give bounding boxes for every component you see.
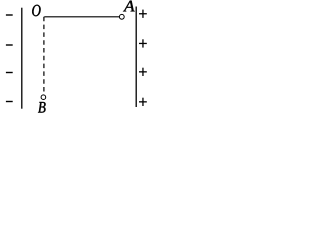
- node B label: [38, 102, 46, 113]
- minus sign 2: [6, 44, 13, 45]
- node B marker (open circle): [41, 95, 46, 100]
- plus sign 2: [139, 39, 147, 47]
- plus sign 4: [139, 98, 147, 106]
- minus sign 3: [6, 72, 13, 73]
- minus sign 1: [6, 14, 13, 15]
- plus sign 1: [139, 10, 147, 18]
- node A marker (open circle): [119, 14, 124, 19]
- node O label: [32, 5, 40, 16]
- minus sign 4: [6, 101, 13, 102]
- positive plate (right vertical line): [135, 7, 137, 108]
- plus sign 3: [139, 68, 147, 76]
- dashed path O to B (vertical dashed line): [43, 17, 45, 95]
- node A label: [123, 1, 135, 12]
- wire O to A (horizontal line): [44, 16, 119, 18]
- negative plate (left vertical line): [21, 8, 23, 109]
